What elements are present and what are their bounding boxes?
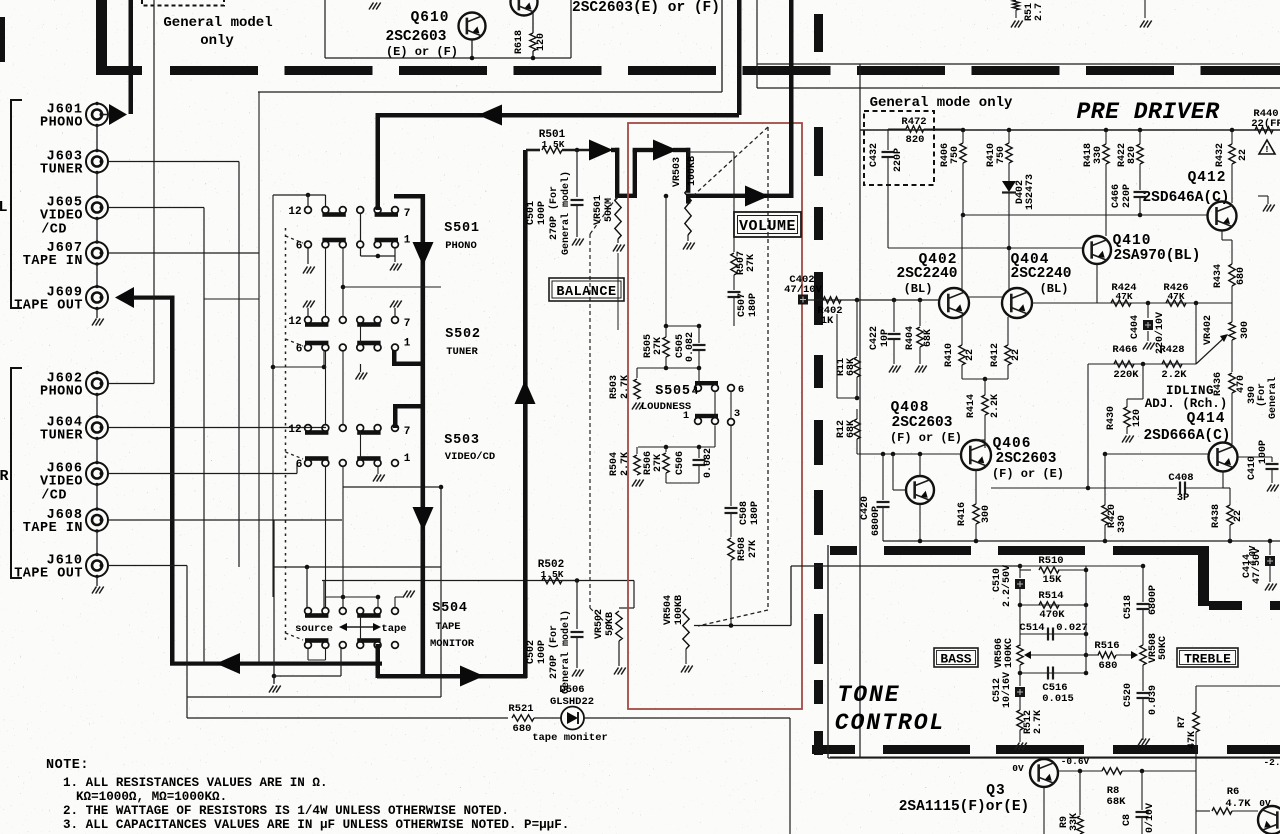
arrow volume out xyxy=(745,186,769,207)
wire loudness mid xyxy=(637,367,699,369)
capacitor C408 xyxy=(1179,482,1181,495)
capacitor C512 electrolytic xyxy=(1019,665,1021,686)
bracket L group xyxy=(11,100,22,308)
wire R502 out xyxy=(562,580,634,582)
transistor Q412 xyxy=(1208,202,1237,231)
Q610 box outline xyxy=(324,0,326,58)
transistor Q408 xyxy=(906,476,934,504)
arrow up-bus xyxy=(515,380,536,404)
arrow source-tape xyxy=(345,626,375,628)
resistor R472 xyxy=(888,128,906,130)
wire Q406 emitter xyxy=(975,470,977,504)
wire y570 xyxy=(1020,569,1086,571)
wire J603 vertical bus xyxy=(238,162,240,568)
wire pre-driver top rail xyxy=(860,129,1280,131)
boxed label VOLUME xyxy=(734,212,801,237)
resistor R506 xyxy=(665,447,667,452)
resistor R51x top xyxy=(1013,0,1019,10)
resistor R430 xyxy=(1124,407,1130,427)
wire below VR501 xyxy=(617,253,619,330)
wire tape monitor feed y567 xyxy=(274,566,441,568)
wire J605 link xyxy=(204,298,259,300)
transistor Q404 xyxy=(1002,288,1032,318)
switch S505 row2 xyxy=(695,418,702,425)
wire thick volume out xyxy=(688,194,792,198)
jack J602 xyxy=(86,373,108,395)
wire R430 branch xyxy=(1142,364,1144,399)
diode D506 xyxy=(561,707,584,730)
wire volume to tone up xyxy=(790,566,792,626)
resistor R434 xyxy=(1229,264,1235,286)
wire S503 out tap xyxy=(439,485,444,490)
transistor Q406 xyxy=(961,440,991,470)
ground lower left xyxy=(269,686,274,693)
capacitor C502 xyxy=(576,581,578,630)
transistor Q414 xyxy=(1209,443,1238,472)
wire S501 mid column xyxy=(360,214,362,242)
switch S505 row1 xyxy=(695,385,702,392)
wire Q3 out xyxy=(1058,770,1102,772)
ground top xyxy=(369,3,374,10)
wire Q402-Q404 base link xyxy=(967,296,1004,298)
capacitor C420 xyxy=(882,454,884,500)
wire J608 horizontal xyxy=(108,519,342,521)
ground S501 right xyxy=(360,248,362,256)
switch S502 xyxy=(305,317,312,324)
board border thick dashed horizontal bottom xyxy=(812,745,855,754)
wire y248 line xyxy=(888,247,1083,249)
wire input to R510 xyxy=(1019,565,1040,567)
capacitor C501 xyxy=(576,150,578,197)
resistor R507 xyxy=(733,152,735,252)
wire y790 r6 xyxy=(1103,756,1105,758)
wiper VR402 arrow xyxy=(1196,336,1226,364)
arrow phono feed left xyxy=(478,105,502,126)
wire y580 bus xyxy=(322,580,577,582)
resistor R402 xyxy=(823,297,841,303)
wire Q408 emitter xyxy=(919,504,921,541)
wire thick to VR503 top xyxy=(673,148,690,152)
ground S501 left xyxy=(307,248,309,264)
arrow J609 from tape bus xyxy=(115,287,134,308)
wiper VR503 thick xyxy=(686,194,690,204)
wire S503 grounds xyxy=(360,364,362,372)
capacitor C410 xyxy=(1238,456,1272,458)
wire VR502 feed xyxy=(633,581,635,609)
resistor R503 xyxy=(636,368,638,378)
wire Q3 collector xyxy=(1043,757,1045,759)
board outline thin pre-driver second xyxy=(757,87,1280,89)
wire Q408 collector xyxy=(919,454,921,476)
resistor R510 xyxy=(1020,569,1031,571)
wire R501 input xyxy=(526,149,540,152)
wire Q610 emitter to bus xyxy=(471,39,473,58)
switch S503 xyxy=(305,425,312,432)
resistor R440 xyxy=(1255,127,1273,133)
wire y454 left xyxy=(857,453,961,455)
wire Q406 collector up xyxy=(976,439,985,441)
resistor R504 xyxy=(636,447,638,454)
wire S502 net dots xyxy=(341,285,346,290)
wire R6 row xyxy=(1196,810,1210,812)
arrow tape out left xyxy=(216,653,240,674)
wire thick into VR501 xyxy=(611,148,619,152)
jack J603 xyxy=(86,151,108,173)
wire treble input xyxy=(1019,565,1143,567)
boxed label BALANCE xyxy=(549,278,624,301)
resistor R514 xyxy=(1039,602,1059,608)
potentiometer VR501 xyxy=(615,197,621,239)
wire y634 xyxy=(1020,633,1086,635)
board border thick corner bar top-left horizontal xyxy=(97,66,142,75)
jack J609 xyxy=(86,287,108,309)
resistor R426 xyxy=(1166,300,1186,306)
wire Q3 emitter down xyxy=(1043,787,1045,834)
capacitor C404 electrolytic xyxy=(1147,303,1149,318)
resistor R422 xyxy=(1138,128,1143,133)
capacitor C507 xyxy=(733,275,735,290)
wire y488 line xyxy=(1088,487,1177,489)
wire thick J601 feed xyxy=(129,0,134,114)
board border thick dashed horizontal top xyxy=(170,66,258,75)
capacitor C518 xyxy=(1137,603,1150,605)
capacitor C402 electrolytic xyxy=(798,295,808,305)
warning triangle xyxy=(1259,140,1275,154)
board outline thin tone board left xyxy=(827,545,829,758)
wire rail drop R410 xyxy=(1007,128,1012,133)
arrow balance in xyxy=(589,140,613,161)
dashed box general mode xyxy=(864,111,934,185)
wire R11 tap xyxy=(837,397,857,399)
dashed gang VR503-VR504 xyxy=(694,127,768,195)
wire x273 bus xyxy=(272,195,274,597)
wire y215 line xyxy=(961,213,966,218)
wire treble bus top xyxy=(1142,566,1144,602)
capacitor C505 xyxy=(698,326,700,343)
wire top ground 2 xyxy=(1144,0,1146,18)
wire VR402 feed vert xyxy=(1195,303,1197,364)
resistor R404 xyxy=(919,300,921,326)
wire thick S503 pin7 link xyxy=(393,404,423,409)
wire y673 xyxy=(1020,672,1086,674)
wire loudness lower top xyxy=(638,446,715,448)
wire J606 riser xyxy=(296,463,298,474)
resistor R410pre xyxy=(1006,143,1012,163)
gang dashed line switches xyxy=(285,228,287,641)
wire thick vr501 step xyxy=(615,194,636,198)
resistor R502 xyxy=(542,577,562,583)
board border step horizontal right xyxy=(1209,601,1242,610)
wire R501 to arrow xyxy=(562,149,590,152)
wire J608 vertical xyxy=(273,520,275,683)
wire D506 out xyxy=(584,717,790,719)
capacitor C520 xyxy=(1142,665,1144,691)
capacitor C414 electrolytic xyxy=(1269,541,1271,555)
wire Q408 base xyxy=(892,454,894,490)
wire J606 horizontal xyxy=(108,473,297,475)
resistor R512 xyxy=(1017,710,1023,730)
resistor R438 xyxy=(1228,539,1233,544)
board outline thin vertical x=757 xyxy=(756,0,758,88)
wire thick phono feed horizontal xyxy=(376,113,739,118)
wire R618 branch xyxy=(532,12,534,33)
wire x273 stub S502 xyxy=(273,366,324,368)
wire S502 columns xyxy=(325,248,327,317)
wire R521 to D506 xyxy=(534,717,561,719)
wire thick S504 out to volume xyxy=(377,674,527,679)
resistor R414 xyxy=(984,379,986,395)
wire VR506 wiper xyxy=(1029,654,1086,656)
wire VR503 top tap xyxy=(688,151,734,153)
resistor R428 xyxy=(1162,361,1182,367)
dashed gang VR501-VR502 xyxy=(590,197,617,234)
jack J607 xyxy=(86,242,108,264)
transistor Q right edge xyxy=(1258,806,1280,834)
wire bottom rail xyxy=(883,540,1280,542)
wire Q404 base feed xyxy=(1008,248,1010,289)
ground near Q412 xyxy=(1267,196,1269,204)
resistor R11 xyxy=(856,300,858,356)
resistor R618 xyxy=(530,33,536,51)
wire thick tape out xyxy=(133,296,173,300)
wire y364 xyxy=(1088,363,1196,365)
potentiometer VR506 xyxy=(1017,645,1023,665)
jack J606 xyxy=(86,463,108,485)
ground below J609 xyxy=(96,309,98,319)
wire J610 vertical xyxy=(186,566,188,719)
board border small bar left edge xyxy=(0,17,5,62)
board border thick corner bar top-left vertical xyxy=(96,0,107,75)
wire S504 drop x307 xyxy=(306,567,308,607)
resistor R508 xyxy=(728,538,734,560)
switch S504 xyxy=(305,608,312,615)
wire Q410 base xyxy=(887,247,889,249)
resistor R8 xyxy=(1102,768,1122,774)
transistor Q3 xyxy=(1030,759,1058,787)
capacitor C508 xyxy=(725,507,738,509)
wire thick phono into S501 xyxy=(376,113,381,210)
wire Q402 collector xyxy=(961,215,963,289)
resistor R432 xyxy=(1230,128,1235,133)
wire bass left bus xyxy=(1019,566,1021,578)
resistor R466 xyxy=(1114,361,1134,367)
wire Q410 collector up xyxy=(1105,164,1107,236)
switch S501 xyxy=(305,207,312,214)
wire S504 top net xyxy=(326,596,344,598)
wire S501 input net xyxy=(273,194,326,196)
board border thick dashed horizontal tone-control top xyxy=(830,546,857,555)
resistor R410e xyxy=(959,345,965,365)
jack J608 xyxy=(86,509,108,531)
red highlight box xyxy=(628,123,802,709)
capacitor C516 xyxy=(1047,667,1049,680)
wire rail drop R406 xyxy=(961,128,966,133)
bracket R group xyxy=(11,368,22,578)
board outline thin vertical x=258 xyxy=(258,92,260,664)
resistor R436 xyxy=(1231,340,1233,372)
arrow S504 out right xyxy=(460,666,484,687)
wire lower box x441 xyxy=(440,487,442,697)
wire thin above bottom dash xyxy=(830,756,1280,758)
wire loudness top xyxy=(666,325,699,327)
ground VR502 xyxy=(618,641,620,666)
capacitor C422 xyxy=(893,300,895,332)
resistor R516 xyxy=(1098,652,1116,658)
resistor R424 xyxy=(1111,300,1131,306)
wire Q406 right xyxy=(991,487,1088,489)
wire jack chain L group xyxy=(96,126,98,151)
wire R502 row xyxy=(420,580,542,582)
jack J604 xyxy=(86,417,108,439)
wire thick S504 tape bar drop xyxy=(376,644,381,678)
capacitor C8 xyxy=(1141,771,1143,810)
capacitor C432 xyxy=(887,129,889,150)
wire loudness drop xyxy=(664,194,669,199)
wire S503 bottom ground xyxy=(377,467,379,475)
wire y303 main xyxy=(807,299,939,301)
wire x341 riser xyxy=(340,648,342,676)
wire S505 links xyxy=(698,368,700,385)
wire y454 right xyxy=(1105,453,1208,455)
potentiometer VR503 xyxy=(685,189,691,235)
wire thick S501 pin7 link xyxy=(394,194,423,199)
wire thick volume up xyxy=(789,0,794,198)
arrow bus down 1 xyxy=(413,242,434,266)
wire thick phono feed vertical right xyxy=(737,0,742,115)
jack J610 xyxy=(86,555,108,577)
resistor R416 xyxy=(973,504,979,524)
capacitor C466 xyxy=(1134,191,1147,193)
wire thick S502 pin1 link xyxy=(392,350,397,365)
wire J602 vertical from top xyxy=(153,0,155,384)
wire thick up-bus to R501 xyxy=(523,150,528,678)
wire Q412 emitter chain xyxy=(1221,231,1223,241)
potentiometer VR502 xyxy=(616,611,622,641)
jack J605 xyxy=(86,197,108,219)
jack J601 xyxy=(86,104,108,126)
transistor Q410 xyxy=(1083,236,1111,264)
board border step vertical near treble xyxy=(1198,546,1209,606)
ground VR504 xyxy=(685,649,687,664)
capacitor C514 xyxy=(1047,628,1049,641)
wire J605 horizontal xyxy=(108,207,204,209)
wire tape monitor line xyxy=(187,717,508,719)
transistor Q402 xyxy=(939,288,969,318)
wire S502 grounds xyxy=(307,308,309,317)
boxed label TREBLE xyxy=(1177,648,1238,667)
board outline thin tone board bottom xyxy=(828,757,1280,759)
wire J604 horizontal xyxy=(108,427,326,429)
board outline thin pre-driver top xyxy=(757,63,1280,65)
wire Q414 collector xyxy=(1231,434,1233,444)
potentiometer VR402 xyxy=(1229,322,1235,340)
wire ground stub x274 xyxy=(272,674,277,679)
wire R7 top xyxy=(1196,685,1280,687)
capacitor C510 electrolytic xyxy=(1015,579,1025,589)
resistor R6 xyxy=(1212,808,1232,814)
arrow J601 to preamp xyxy=(102,114,109,116)
resistor R9 xyxy=(1079,771,1081,815)
resistor R505 xyxy=(665,326,667,337)
resistor R7 xyxy=(1195,686,1197,712)
resistor R420 xyxy=(1104,454,1106,505)
wire x790 down xyxy=(789,718,791,834)
wire volume to tone right xyxy=(791,565,1019,567)
resistor R418 xyxy=(1104,128,1109,133)
wire y605 xyxy=(1020,604,1086,606)
dashed box general model only xyxy=(142,0,224,6)
wire thick balance to volume xyxy=(633,148,655,152)
wire x1088 xyxy=(1087,364,1089,488)
resistor R412 xyxy=(1005,345,1011,365)
board outline thin left half xyxy=(258,91,722,93)
wire riser S504 xyxy=(323,581,325,608)
wire bass right bus xyxy=(1085,605,1087,673)
board border thick dashed vertical between boards xyxy=(814,14,823,52)
wire R516 row xyxy=(1086,654,1099,656)
wire lower box y697 xyxy=(187,696,441,698)
resistor R12 xyxy=(855,396,860,401)
wire Q404 emitter xyxy=(1007,317,1009,345)
wire J610 horizontal xyxy=(108,565,187,567)
transistor Q610 xyxy=(459,13,486,40)
potentiometer VR504 xyxy=(683,609,689,649)
wire jack chain R group xyxy=(96,395,98,417)
capacitor C506 xyxy=(698,447,700,458)
wire S503 columns xyxy=(360,432,362,460)
diode D402 xyxy=(1002,181,1016,192)
resistor R521 xyxy=(512,715,534,721)
ground VR503 xyxy=(687,235,689,241)
arrow volume in xyxy=(653,140,677,161)
potentiometer VR508 xyxy=(1140,645,1146,665)
wire thick selected bus xyxy=(421,194,426,676)
wire emitter join xyxy=(962,378,1008,380)
wire S504 row2 stubs xyxy=(307,649,309,661)
board outline thin vertical x=722 xyxy=(721,0,723,92)
ground below J610 xyxy=(96,577,98,587)
wire Q410 emitter down xyxy=(1096,264,1098,303)
wire Q402 emitter xyxy=(961,317,963,345)
wire J603 horizontal xyxy=(108,161,239,163)
wire VR504 wiper out xyxy=(694,625,791,627)
wire C508 drop xyxy=(730,426,732,507)
transistor top partial xyxy=(511,0,538,16)
resistor R501 xyxy=(542,147,562,153)
boxed label BASS xyxy=(934,648,978,667)
wire y303 right xyxy=(1031,302,1232,304)
wire J602 horizontal xyxy=(108,383,154,385)
ground VR501 xyxy=(617,239,619,243)
wire loudness lower bottom xyxy=(636,446,638,448)
wire J605 vertical bus xyxy=(203,208,205,663)
board outline thin vertical x=860 xyxy=(859,64,861,757)
arrow bus down 2 xyxy=(413,507,434,531)
resistor R406 xyxy=(960,143,966,163)
wire J607 horizontal xyxy=(108,252,259,254)
